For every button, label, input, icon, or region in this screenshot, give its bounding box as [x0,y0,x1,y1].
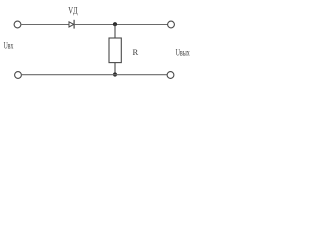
input terminal (bottom left) [15,72,22,79]
wire: resistor bottom lead [114,63,116,75]
svg-text:R: R [133,47,139,57]
input terminal (top left) [14,21,21,28]
wire: bottom rail [21,74,167,76]
wire: top rail, left terminal to diode anode [21,24,69,26]
diode VD [69,20,74,29]
output terminal (top right) [168,21,175,28]
wire: top rail, diode cathode to output terminal [74,24,168,26]
svg-text:Uвых: Uвых [176,47,191,57]
resistor R [109,38,121,63]
junction node (bottom) [113,72,117,76]
output terminal (bottom right) [167,72,174,79]
junction node (top) [113,22,117,26]
svg-text:Uвх: Uвх [4,41,14,51]
wire: resistor top lead [114,24,116,38]
svg-text:VД: VД [68,7,78,17]
